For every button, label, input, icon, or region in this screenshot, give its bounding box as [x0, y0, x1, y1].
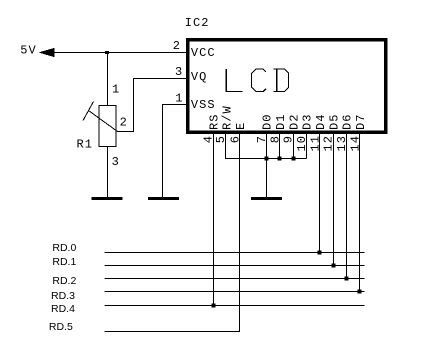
junction D0 net: [265, 157, 269, 161]
svg-text:RD.4: RD.4: [51, 303, 75, 315]
svg-text:5: 5: [214, 135, 228, 143]
ground under D0-D3 net: [251, 197, 282, 200]
5V arrow: [39, 48, 55, 57]
wire pin 4 RS down to RD.4: [213, 133, 215, 306]
svg-text:11: 11: [308, 135, 322, 152]
svg-text:D6: D6: [341, 113, 355, 130]
wire R1 pin 3 to ground: [107, 147, 109, 198]
wire pin 5 R/W down and right to D0..D3 net: [226, 133, 307, 159]
svg-text:D0: D0: [261, 113, 275, 130]
wire 5V to VCC pin 2: [54, 52, 186, 54]
junction RS/RD.4: [212, 304, 216, 308]
wire VQ pin 3 to R1 wiper: [118, 79, 187, 132]
letter C: [252, 69, 266, 91]
ground under R1: [92, 197, 123, 200]
ground under VSS: [148, 197, 179, 200]
junction D2 net: [292, 157, 296, 161]
svg-text:13: 13: [335, 135, 349, 152]
svg-text:VQ: VQ: [191, 70, 208, 84]
resistor R1 body: [99, 106, 116, 147]
svg-text:1: 1: [175, 92, 183, 106]
svg-text:VSS: VSS: [191, 98, 216, 112]
resistor R1 wiper arrow shaft: [89, 111, 118, 132]
svg-text:RD.1: RD.1: [52, 256, 76, 268]
svg-text:6: 6: [228, 135, 242, 143]
svg-text:3: 3: [112, 155, 120, 169]
wire VSS pin 1 to ground: [163, 105, 187, 198]
big LCD lettering: letter L: [226, 69, 288, 91]
svg-text:10: 10: [295, 135, 309, 152]
svg-text:E: E: [234, 122, 248, 130]
junction D1 net: [278, 157, 282, 161]
wire net RD.4: [105, 305, 365, 307]
wire net RD.2: [105, 278, 365, 280]
op-amp: none; LCD module box IC2: [188, 40, 386, 132]
junction D4/RD.0: [318, 251, 322, 255]
svg-text:R/W: R/W: [221, 105, 235, 130]
svg-text:R1: R1: [77, 137, 94, 151]
svg-text:D2: D2: [287, 113, 301, 130]
junction D7/RD.3: [358, 290, 362, 294]
wire pin 14 D7 down to RD.3: [359, 133, 361, 292]
svg-text:RD.0: RD.0: [52, 242, 76, 254]
svg-text:RS: RS: [207, 113, 221, 130]
svg-text:8: 8: [268, 135, 282, 143]
svg-text:D5: D5: [327, 113, 341, 130]
wire net to ground: [266, 159, 268, 198]
resistor R1 wiper arrowhead bar: [83, 102, 94, 121]
junction D5/RD.1: [332, 264, 336, 268]
svg-text:7: 7: [255, 135, 269, 143]
svg-text:IC2: IC2: [185, 16, 210, 30]
svg-text:3: 3: [175, 65, 183, 79]
wire pin 11 D4 down to RD.0: [319, 133, 321, 253]
wire pin 10 D3 down to net: [306, 133, 308, 159]
svg-text:14: 14: [348, 135, 362, 152]
svg-text:RD.2: RD.2: [52, 275, 76, 287]
wire net RD.3: [105, 291, 365, 293]
svg-text:2: 2: [120, 116, 128, 130]
wire pin 9 D2 down to net: [293, 133, 295, 159]
wire pin 8 D1 down to net: [279, 133, 281, 159]
svg-text:D1: D1: [274, 113, 288, 130]
svg-text:D7: D7: [354, 113, 368, 130]
svg-text:12: 12: [322, 135, 336, 152]
wire pin 13 D6 down to RD.2: [346, 133, 348, 279]
letter D: [273, 69, 288, 91]
svg-text:D4: D4: [314, 113, 328, 130]
wire junction to R1 pin 1: [107, 53, 109, 106]
wire pin 6 E down to RD.5: [105, 133, 240, 332]
svg-text:RD.3: RD.3: [51, 290, 75, 302]
svg-text:D3: D3: [301, 113, 315, 130]
svg-text:RD.5: RD.5: [49, 321, 73, 333]
wire pin 12 D5 down to RD.1: [333, 133, 335, 266]
svg-text:1: 1: [112, 83, 120, 97]
svg-text:2: 2: [173, 39, 181, 53]
svg-text:5V: 5V: [20, 44, 37, 58]
svg-text:9: 9: [282, 135, 296, 143]
wire net RD.1: [105, 265, 365, 267]
svg-text:VCC: VCC: [191, 46, 216, 60]
junction 5V/R1: [105, 51, 109, 54]
wire net RD.0: [105, 252, 365, 254]
wire pin 7 D0 down to net: [266, 133, 268, 159]
junction D6/RD.2: [345, 277, 349, 281]
